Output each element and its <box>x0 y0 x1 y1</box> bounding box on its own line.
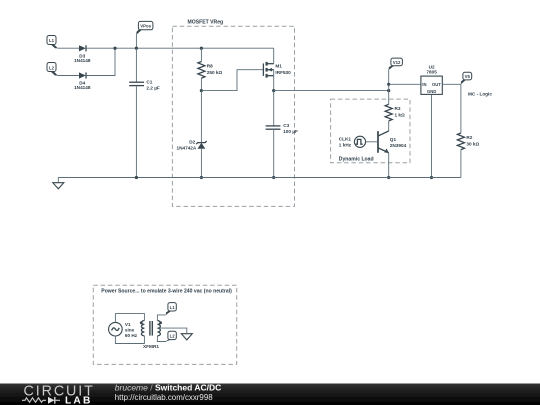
junction C3 / ground rail <box>272 176 275 179</box>
capacitor C1 2.2uF <box>129 80 160 91</box>
transistor Q1 2N3904 <box>378 131 407 153</box>
svg-text:R3: R3 <box>395 106 401 111</box>
net label L1 (top-left) <box>47 36 58 49</box>
wire emitter to rail <box>388 153 390 178</box>
ground symbol (main) <box>53 178 64 189</box>
svg-text:D2: D2 <box>189 140 195 145</box>
junction R8 bottom / gate net <box>200 89 203 92</box>
wire gate net <box>201 70 263 91</box>
junction C1/rail <box>135 176 138 179</box>
svg-text:C1: C1 <box>146 80 152 85</box>
wire U2 OUT to V5 corner <box>442 83 461 85</box>
svg-text:V1: V1 <box>125 322 131 327</box>
svg-text:OUT: OUT <box>432 82 441 87</box>
junction GND drop / rail <box>430 176 433 179</box>
wire secondary bottom to L2 <box>157 336 166 342</box>
svg-text:GND: GND <box>427 89 436 94</box>
junction VPos/C1 <box>135 47 138 50</box>
junction V12 / IN wire <box>387 83 390 86</box>
svg-text:30 kΩ: 30 kΩ <box>466 141 479 146</box>
wire D4 up to top rail <box>86 48 115 75</box>
wire L2 to D4 <box>58 75 80 77</box>
svg-text:60 Hz: 60 Hz <box>125 333 138 338</box>
net label V5 <box>461 72 472 84</box>
svg-text:100 µF: 100 µF <box>283 129 298 134</box>
svg-text:V5: V5 <box>465 74 471 79</box>
dashed box MOSFET VReg <box>172 20 294 207</box>
ground rail (bottom) <box>58 177 461 179</box>
svg-text:V12: V12 <box>393 60 401 65</box>
wire center tap to ground <box>158 328 187 334</box>
svg-text:2N3904: 2N3904 <box>390 143 407 148</box>
wire to U2 IN <box>389 83 421 85</box>
wire V5 down to R2 <box>460 84 462 133</box>
resistor R2 30k <box>457 133 479 178</box>
net label VPos <box>136 21 153 34</box>
net label V12 <box>389 58 403 70</box>
junction V12 node <box>387 89 390 92</box>
svg-text:1 kΩ: 1 kΩ <box>395 113 406 118</box>
ground symbol (transformer) <box>181 334 192 340</box>
svg-text:XFMR1: XFMR1 <box>143 344 159 349</box>
wire source drop <box>273 70 275 91</box>
dashed box Dynamic Load <box>331 99 410 163</box>
resistor R3 1k <box>385 104 405 131</box>
wire V1 top to primary <box>115 314 144 323</box>
svg-text:1 kHz: 1 kHz <box>339 142 352 147</box>
regulator U2 7805 <box>421 64 442 94</box>
svg-text:MOSFET VReg: MOSFET VReg <box>188 20 224 26</box>
clock source CLK1 <box>339 136 366 147</box>
svg-text:2.2 µF: 2.2 µF <box>146 86 160 91</box>
wire source node to C3 <box>273 91 275 126</box>
svg-text:VPos: VPos <box>140 24 151 29</box>
footer bar <box>0 384 540 405</box>
svg-text:1N4148: 1N4148 <box>74 58 91 63</box>
junction emitter / rail <box>387 176 390 179</box>
voltage source V1 sine 60Hz <box>109 322 138 338</box>
diode D3 1N4148 <box>74 45 91 63</box>
wire L1 to D3 <box>58 47 80 49</box>
wire source node to V12 node <box>274 90 389 92</box>
svg-text:IN: IN <box>422 82 426 87</box>
transformer XFMR1 <box>140 321 162 350</box>
svg-text:C3: C3 <box>283 123 289 128</box>
svg-text:sine: sine <box>125 327 135 332</box>
svg-text:MC - Logic: MC - Logic <box>468 92 492 97</box>
svg-text:1N4742A: 1N4742A <box>176 146 196 151</box>
wire VPos down to top rail <box>135 34 137 48</box>
wire drain riser <box>273 48 275 64</box>
net label L2 (lower) <box>166 331 176 341</box>
wire V12 riser <box>388 69 390 104</box>
resistor R8 250k <box>198 48 223 90</box>
svg-text:7805: 7805 <box>426 69 437 74</box>
svg-text:L1: L1 <box>49 38 55 43</box>
net label L2 (top-left) <box>47 63 58 76</box>
wire secondary top to L1 <box>157 315 166 321</box>
svg-text:http://circuitlab.com/cxxr998: http://circuitlab.com/cxxr998 <box>115 393 213 402</box>
svg-text:Q1: Q1 <box>390 137 397 142</box>
wire U2 GND drop <box>431 94 433 177</box>
svg-text:1N4148: 1N4148 <box>74 85 91 90</box>
junction D3/D4 <box>113 47 116 50</box>
wire V1 bottom to primary <box>115 336 144 344</box>
junction top rail / R8 <box>200 47 203 50</box>
wire C3 to ground rail <box>273 129 275 177</box>
junction D2 / ground rail <box>200 176 203 179</box>
capacitor C3 100uF <box>266 123 298 134</box>
diode D4 1N4148 <box>74 72 91 90</box>
svg-text:250 kΩ: 250 kΩ <box>207 70 223 75</box>
wire D3 to drain corner (top rail) <box>86 47 274 49</box>
svg-text:Power Source... to emulate 3-w: Power Source... to emulate 3-wire 240 va… <box>101 288 232 294</box>
zener diode D2 1N4742A <box>176 91 206 178</box>
net label L1 (lower) <box>166 303 176 315</box>
svg-text:IRF530: IRF530 <box>275 70 291 75</box>
junction source node <box>272 89 275 92</box>
svg-text:R8: R8 <box>207 63 213 68</box>
svg-text:M1: M1 <box>275 64 282 69</box>
footer text <box>115 383 221 402</box>
wire CLK1 to base <box>366 141 378 143</box>
wire C1 to ground rail <box>135 86 137 178</box>
wire top rail to C1 <box>135 48 137 82</box>
mosfet M1 IRF530 <box>263 62 291 78</box>
svg-text:R2: R2 <box>466 135 472 140</box>
svg-text:CLK1: CLK1 <box>339 137 352 142</box>
svg-text:L2: L2 <box>49 66 55 71</box>
svg-text:bruceme / Switched AC/DC: bruceme / Switched AC/DC <box>115 383 221 393</box>
svg-text:L2: L2 <box>170 334 176 339</box>
svg-text:LAB: LAB <box>65 395 93 405</box>
dashed box Power Source <box>93 285 236 364</box>
svg-text:Dynamic Load: Dynamic Load <box>339 157 374 163</box>
svg-text:L1: L1 <box>170 305 176 310</box>
logo CIRCUIT LAB <box>22 384 95 405</box>
